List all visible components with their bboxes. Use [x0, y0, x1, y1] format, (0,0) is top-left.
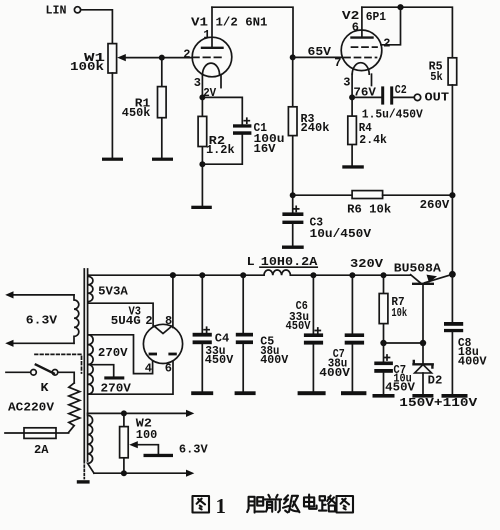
- svg-text:2: 2: [183, 47, 190, 61]
- wire 260V node down to emitter node: [451, 195, 453, 274]
- svg-text:260V: 260V: [420, 198, 451, 212]
- svg-text:2.4k: 2.4k: [359, 133, 387, 147]
- svg-text:1: 1: [216, 494, 227, 518]
- svg-text:4: 4: [145, 362, 152, 376]
- resistor R2: [198, 97, 235, 164]
- fuse 2A: [5, 428, 69, 457]
- capacitor C3 10u/450V: [282, 195, 371, 245]
- svg-text:LIN: LIN: [46, 3, 67, 17]
- svg-text:400V: 400V: [260, 353, 289, 367]
- svg-text:6P1: 6P1: [366, 10, 386, 24]
- control grid dashes V2: [344, 57, 377, 59]
- svg-text:16V: 16V: [254, 142, 277, 156]
- svg-text:450V: 450V: [286, 319, 312, 333]
- ground below C8: [442, 394, 468, 398]
- screen grid dashes V2: [352, 46, 378, 48]
- wire screen pin2 to B+: [381, 7, 401, 45]
- inductor L 10H0.2A: [247, 255, 319, 275]
- triode V1 1/2 6N1: [183, 7, 267, 97]
- wire heater bottom lead with arrow: [12, 342, 74, 344]
- wire HV bottom lead to V3 pin6: [88, 355, 173, 394]
- svg-text:400V: 400V: [458, 355, 487, 369]
- wire C1 bottom to R2 bottom: [202, 135, 242, 165]
- wire heater bottom to arrow: [94, 472, 187, 474]
- svg-text:6: 6: [165, 362, 172, 376]
- wire junction to ground: [201, 164, 203, 206]
- resistor R7: [379, 272, 407, 343]
- resistor R1: [122, 58, 166, 158]
- HV winding 270V-0-270V: [88, 335, 132, 396]
- wire C2 to OUT: [393, 96, 414, 98]
- glyph 图: [193, 496, 210, 513]
- switch K: [6, 365, 58, 395]
- capacitor C2 1.5u/450V: [362, 83, 424, 122]
- rectifier winding 5V3A: [88, 275, 129, 303]
- wire W1 bottom to ground: [111, 73, 113, 158]
- ground center tap: [104, 376, 124, 379]
- svg-text:K: K: [41, 381, 50, 395]
- node junction W1/R1/grid: [159, 55, 165, 61]
- svg-text:400V: 400V: [319, 366, 350, 380]
- zener diode D2: [414, 343, 443, 394]
- ground below C7 10u: [373, 394, 395, 398]
- wire switch to primary: [58, 372, 74, 383]
- node 76V cathode junction: [349, 94, 355, 100]
- svg-text:R6 10k: R6 10k: [347, 203, 391, 217]
- glyph 图 (second): [337, 496, 354, 513]
- svg-text:7: 7: [334, 56, 341, 70]
- svg-text:270V: 270V: [98, 346, 129, 360]
- core shield ground bar: [77, 480, 90, 483]
- capacitor C8 18u 400V: [444, 274, 487, 394]
- wire 65V node to V2 grid pin7: [293, 56, 342, 58]
- svg-text:1/2 6N1: 1/2 6N1: [216, 15, 268, 29]
- svg-text:100: 100: [136, 428, 158, 442]
- svg-text:150V+110V: 150V+110V: [399, 396, 478, 410]
- potentiometer W1: [70, 44, 126, 75]
- heater winding 6.3V (left): [26, 295, 79, 343]
- primary winding zigzag: [69, 383, 80, 432]
- svg-text:450V: 450V: [385, 381, 416, 395]
- ground below W1: [102, 158, 123, 161]
- rectifier V3 5U4G: [111, 304, 183, 375]
- svg-text:5k: 5k: [430, 70, 443, 84]
- node OUT terminal: [414, 91, 449, 105]
- resistor R4: [348, 97, 387, 165]
- svg-text:L: L: [247, 255, 255, 269]
- glyph 电: [304, 495, 317, 509]
- node emitter/C8 junction: [449, 271, 456, 278]
- ground below C5: [235, 391, 256, 395]
- wire heater top to arrow: [88, 412, 187, 414]
- ground below C4: [191, 391, 213, 395]
- svg-text:C2: C2: [395, 83, 407, 97]
- capacitor C1 100u 16V: [233, 118, 285, 156]
- wire 260V feed line left of R6: [293, 194, 352, 196]
- resistor R6 10k (horizontal): [347, 191, 391, 217]
- glyph 级: [283, 495, 299, 512]
- glyph 胆: [247, 497, 264, 513]
- capacitor C7 38u 400V: [319, 272, 364, 391]
- node base/D2 junction: [420, 340, 426, 346]
- svg-text:2A: 2A: [34, 443, 49, 457]
- cathode V1: [203, 63, 220, 74]
- ground below C7 38u: [341, 391, 366, 395]
- node B+ takeoff: [170, 272, 176, 278]
- wire heater top lead with arrow: [12, 294, 74, 296]
- glyph 前: [265, 495, 281, 512]
- grid dashes V1: [192, 56, 222, 58]
- wire LIN to W1 top: [81, 10, 113, 44]
- svg-text:1.5u/450V: 1.5u/450V: [362, 108, 424, 122]
- node 2V cathode junction: [199, 94, 205, 100]
- svg-text:6: 6: [352, 21, 359, 35]
- resistor R3: [288, 57, 329, 195]
- wire grid bus: W1 wiper to R1 top to V1 grid pin2: [125, 57, 193, 59]
- node 260V junction: [449, 192, 455, 198]
- ground below W2 wiper: [144, 454, 174, 457]
- wire cathode node to C1 top: [202, 97, 242, 124]
- wire HV top lead to V3 pin4: [88, 335, 153, 374]
- svg-text:450k: 450k: [122, 106, 151, 120]
- svg-text:10u/450V: 10u/450V: [310, 227, 372, 241]
- ground below R4: [342, 165, 364, 168]
- ground below R2: [191, 206, 212, 209]
- svg-text:3: 3: [194, 76, 201, 90]
- filament V3: [154, 326, 173, 334]
- wire base node R7 to D2: [384, 342, 424, 344]
- node LIN input terminal: [46, 3, 81, 17]
- svg-text:100k: 100k: [70, 60, 104, 74]
- wire V2 anode to B+ top rail: [362, 7, 453, 58]
- svg-text:320V: 320V: [350, 257, 384, 271]
- svg-text:D2: D2: [428, 374, 443, 388]
- wire B+ rail left segment: [88, 274, 264, 276]
- wire 76V node to C2: [352, 96, 381, 98]
- svg-text:10k: 10k: [391, 306, 407, 320]
- transformer T1 core: [84, 269, 87, 479]
- node R3/C3/R6 junction: [290, 192, 296, 198]
- heater stub V2: [371, 74, 373, 85]
- anode plate V2: [352, 36, 373, 38]
- svg-text:5U4G: 5U4G: [111, 314, 141, 328]
- wire B+ rail right segment to transistor: [290, 274, 410, 276]
- anode plates V3: [149, 353, 157, 356]
- ground below C6: [298, 391, 326, 395]
- capacitor C6 33u 450V: [286, 272, 324, 391]
- svg-text:2: 2: [145, 314, 152, 328]
- ground below C3: [282, 246, 304, 249]
- wire V1 anode to top rail: [212, 7, 293, 57]
- wire V3 pin8 riser to B+ rail: [172, 275, 174, 327]
- svg-text:2: 2: [383, 37, 390, 51]
- anode plate V1: [202, 47, 223, 49]
- svg-text:6.3V: 6.3V: [179, 442, 209, 456]
- svg-text:5V3A: 5V3A: [98, 285, 129, 299]
- pin 6 anode riser V2: [361, 7, 363, 37]
- svg-text:OUT: OUT: [425, 91, 450, 105]
- svg-text:6.3V: 6.3V: [26, 313, 58, 327]
- node R2/C1 bottom junction: [199, 161, 205, 167]
- svg-text:AC220V: AC220V: [8, 401, 55, 415]
- svg-text:BU508A: BU508A: [394, 261, 442, 275]
- capacitor C5 38u 400V: [236, 272, 289, 391]
- svg-text:240k: 240k: [301, 121, 330, 135]
- svg-text:3: 3: [343, 76, 350, 90]
- capacitor C7 10u/450V: [374, 343, 416, 395]
- svg-text:450V: 450V: [205, 353, 234, 367]
- svg-text:1: 1: [203, 28, 210, 42]
- capacitor C4 33u 450V: [193, 272, 234, 391]
- node 65V junction: [290, 54, 296, 60]
- svg-text:1.2k: 1.2k: [206, 143, 235, 157]
- shield dashed line: [35, 354, 82, 373]
- pentode V2 6P1: [334, 7, 390, 97]
- transistor BU508A: [394, 261, 453, 343]
- heater stub V1: [220, 75, 222, 88]
- resistor R5: [429, 58, 457, 195]
- cathode V2: [352, 63, 369, 75]
- heater winding 6.3V (bottom): [88, 413, 94, 473]
- ground below D2: [412, 394, 433, 398]
- wire 5V winding bottom to V3 pin2: [88, 303, 153, 326]
- node R7/C7 junction: [380, 340, 386, 346]
- glyph 路: [319, 496, 335, 512]
- svg-text:270V: 270V: [101, 381, 132, 395]
- potentiometer W2 hum balance: [120, 410, 159, 476]
- ground below R1: [152, 158, 173, 161]
- wire HV center tap: [91, 365, 114, 377]
- node B+ top junction: [397, 4, 403, 10]
- wire R6 to 260V node: [383, 194, 453, 196]
- pin 1 anode riser: [211, 7, 213, 47]
